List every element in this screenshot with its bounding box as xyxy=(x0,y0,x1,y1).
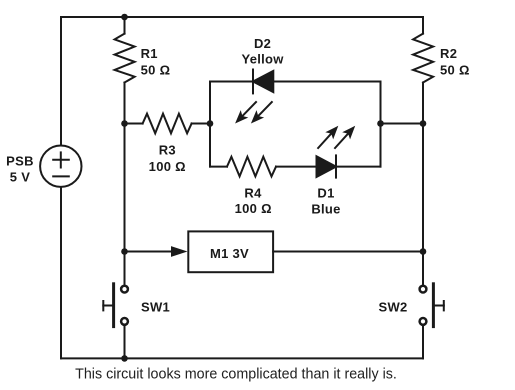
junction M1 left node xyxy=(121,248,128,255)
svg-text:SW2: SW2 xyxy=(379,300,408,315)
switch SW2 xyxy=(420,284,444,327)
wire SW2 to bottom xyxy=(422,326,424,358)
wire M1 right node to SW2 xyxy=(422,252,424,285)
resistor R1 xyxy=(115,34,135,83)
wire R1 to R3 node xyxy=(124,83,126,124)
svg-text:Blue: Blue xyxy=(311,201,340,216)
svg-text:R4: R4 xyxy=(244,185,262,200)
LED D1 symbol xyxy=(317,155,337,177)
svg-text:PSB: PSB xyxy=(6,154,34,169)
wire R1 branch top lead xyxy=(124,17,126,34)
junction R3 left node xyxy=(121,120,128,127)
svg-text:100 Ω: 100 Ω xyxy=(235,201,272,216)
svg-text:5 V: 5 V xyxy=(10,169,30,184)
wire top branch left of D2 xyxy=(210,81,253,83)
LED D1 light arrow 2 xyxy=(331,122,359,151)
wire left vertical upper xyxy=(60,17,62,146)
wire M1 right lead xyxy=(273,251,423,253)
wire parallel box right edge xyxy=(380,82,382,167)
wire box right node to R2 branch xyxy=(381,123,424,125)
wire bottom branch left of R4 xyxy=(210,166,227,168)
wire R3 node to M1 node xyxy=(124,124,126,252)
svg-text:50 Ω: 50 Ω xyxy=(141,63,171,78)
wire R3 left lead xyxy=(125,123,143,125)
junction box left node xyxy=(207,120,214,127)
motor M1 3V box xyxy=(188,231,273,272)
svg-text:SW1: SW1 xyxy=(141,300,170,315)
resistor R3 xyxy=(143,114,192,134)
wire top branch right of D2 xyxy=(273,81,380,83)
wire D1 to box right edge xyxy=(336,166,381,168)
wire R2 branch top lead xyxy=(422,17,424,34)
wire mid node to M1 right node xyxy=(422,124,424,252)
junction box right node xyxy=(377,120,384,127)
wire parallel box left edge xyxy=(209,82,211,167)
junction top of R1 branch xyxy=(121,14,128,21)
svg-text:100 Ω: 100 Ω xyxy=(149,159,186,174)
wire bottom horizontal xyxy=(61,357,423,359)
svg-text:50 Ω: 50 Ω xyxy=(440,63,470,78)
svg-text:D2: D2 xyxy=(254,36,271,51)
svg-text:R2: R2 xyxy=(440,46,457,61)
svg-text:R1: R1 xyxy=(141,46,158,61)
wire R2 to mid node xyxy=(422,83,424,124)
LED D2 light arrow 2 xyxy=(247,98,276,127)
LED D2 symbol xyxy=(253,70,273,94)
wire left vertical lower xyxy=(60,187,62,359)
wire R3 right lead xyxy=(192,123,210,125)
junction M1 right node xyxy=(420,248,427,255)
svg-text:D1: D1 xyxy=(317,186,334,201)
LED D2 light arrow 1 xyxy=(231,98,260,127)
svg-text:Yellow: Yellow xyxy=(241,52,284,67)
switch SW1 xyxy=(103,284,128,327)
junction bottom SW1 node xyxy=(121,355,128,362)
svg-text:M1 3V: M1 3V xyxy=(210,246,249,261)
svg-text:R3: R3 xyxy=(159,143,176,158)
power source PSB 5V xyxy=(40,146,81,187)
wire top horizontal xyxy=(61,16,423,18)
wire SW1 to bottom xyxy=(124,326,126,358)
junction R2 mid node xyxy=(420,120,427,127)
wire R4 to D1 xyxy=(276,166,317,168)
LED D1 light arrow 1 xyxy=(314,122,342,151)
wire M1 node to SW1 xyxy=(124,252,126,285)
resistor R4 xyxy=(227,157,276,177)
resistor R2 xyxy=(413,34,433,83)
svg-text:This circuit looks more compli: This circuit looks more complicated than… xyxy=(75,366,397,382)
wire M1 left lead with arrow xyxy=(125,246,188,257)
